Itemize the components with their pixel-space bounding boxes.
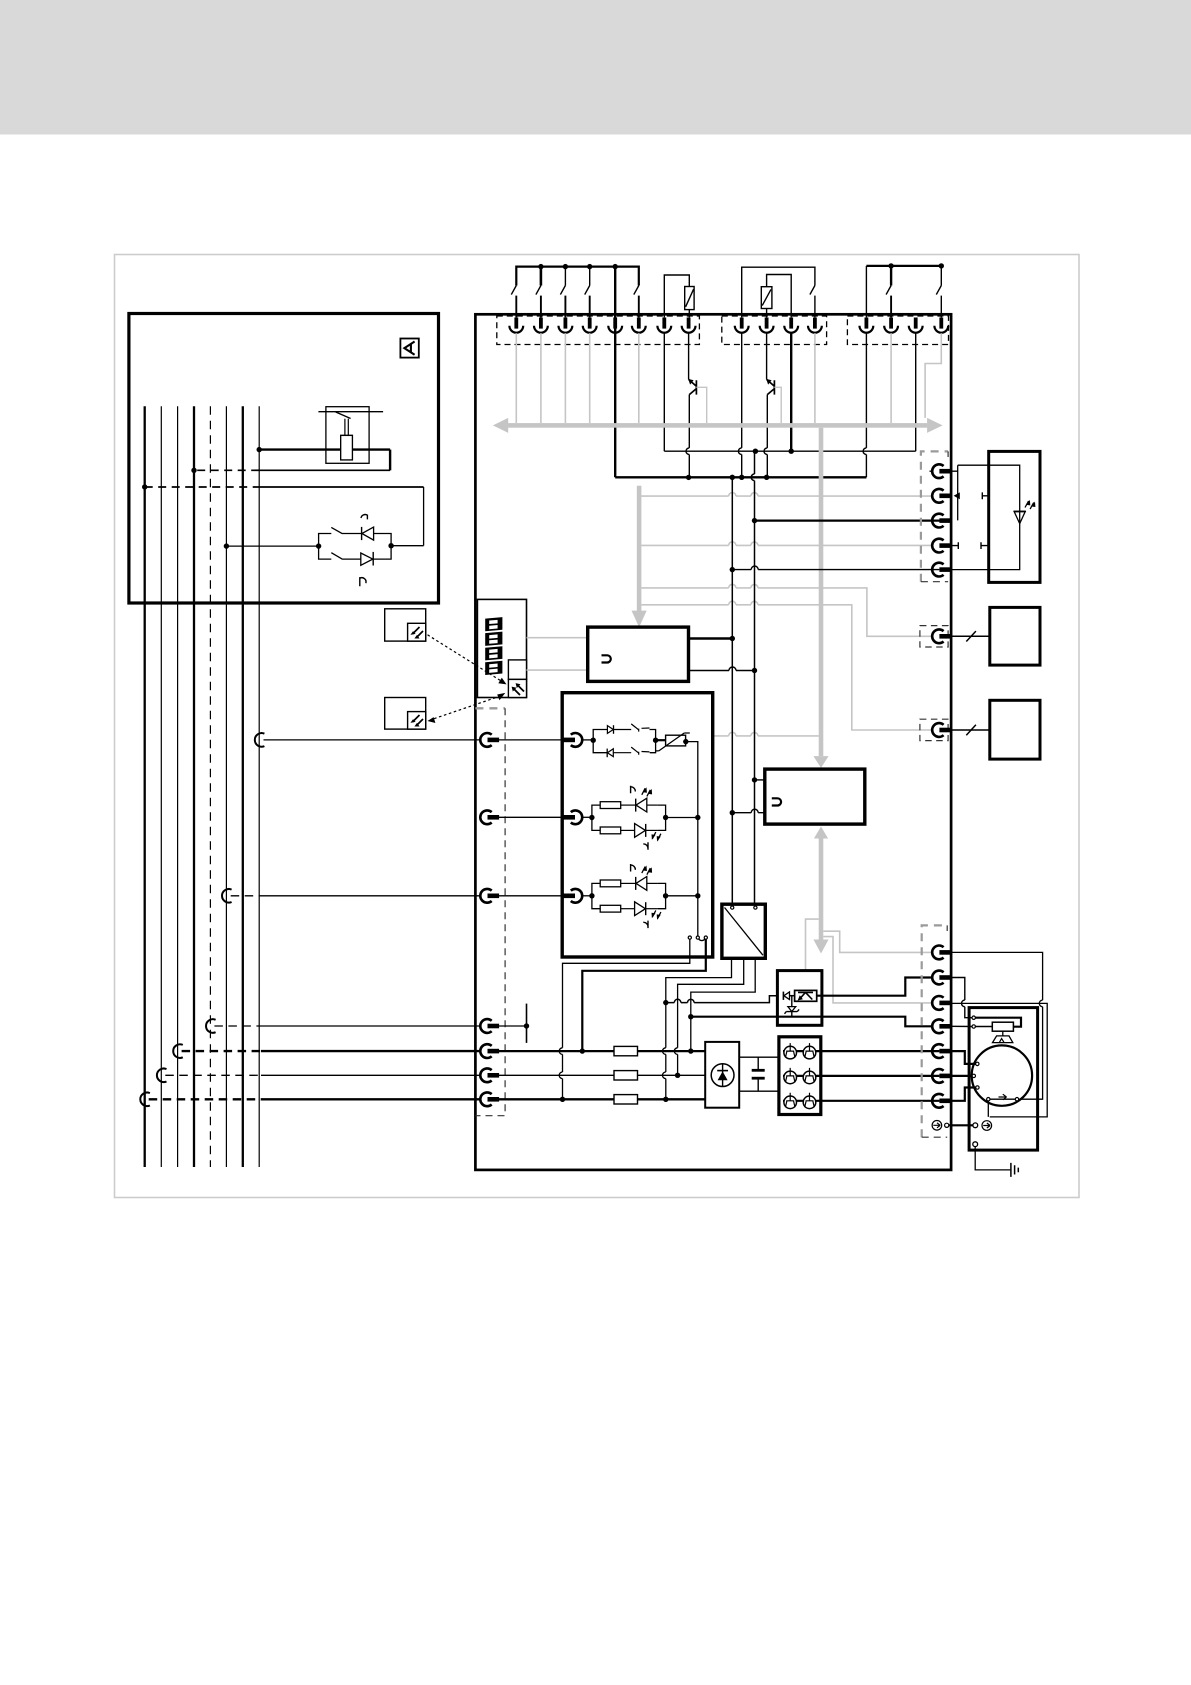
- wire node to PTC: [656, 739, 666, 741]
- connector X20.1 (left edge): [480, 1019, 499, 1033]
- wire gray control drop x815: [814, 333, 816, 423]
- gray signal arrow horizontal (double headed): [508, 423, 928, 428]
- terminal X1.7: [657, 318, 671, 333]
- wire X10.1 to LED board: [499, 739, 564, 741]
- stub pair y546: [951, 542, 990, 549]
- wire H1 collector rail: [664, 450, 915, 452]
- wire t7 up-over loop: [664, 275, 689, 317]
- wire X9.5 to motor U: [951, 1051, 976, 1064]
- wire diag pin1 route: [666, 958, 732, 1002]
- gray branch LED board to U2 arrow: [714, 735, 819, 737]
- terminal X1.1: [509, 318, 523, 333]
- LED V11a (left): [635, 799, 637, 812]
- connector LED board pin2: [563, 810, 582, 824]
- wire pin3 to node: [583, 895, 592, 897]
- terminal X1.5: [608, 318, 622, 333]
- contactor K1 top line: [318, 411, 383, 413]
- transistor IGBT22: [803, 1068, 816, 1084]
- terminal X1.2: [534, 318, 548, 333]
- terminal X3.4: [934, 318, 948, 333]
- wire supply line6: [225, 406, 227, 1167]
- display digit 8: [485, 661, 502, 675]
- wire g2t1 drop with hop: [741, 333, 743, 448]
- wire L1 feed to drive: [140, 1093, 150, 1107]
- brake shoe: [1002, 1031, 1004, 1036]
- switch blade g3 t2: [890, 266, 892, 286]
- resistor R11b: [600, 827, 621, 834]
- terminal X2.4: [808, 318, 822, 333]
- rectifier box: [705, 1042, 739, 1108]
- resistor R11a: [600, 802, 621, 809]
- contactor K1 actuator link: [344, 419, 346, 436]
- wire gray control drop x590: [589, 333, 591, 423]
- connector LED board pin1: [563, 733, 582, 747]
- wire X10.2 to LED board: [499, 816, 564, 818]
- gray branch to relay box B3 connector: [641, 605, 932, 730]
- label A: [400, 339, 418, 358]
- terminal X3.1: [860, 318, 874, 333]
- glyph D below: [643, 842, 648, 850]
- terminal X1.8: [682, 318, 696, 333]
- glyph D above: [631, 864, 636, 872]
- switch blade g3 t4: [940, 266, 942, 286]
- contactor K1 coil: [341, 435, 353, 460]
- header band: [0, 0, 1191, 135]
- wire L1 to interference-suppression loop: [145, 486, 260, 488]
- display digit 8: [485, 632, 502, 646]
- gray branch to right connector 4: [641, 544, 932, 546]
- terminal X3.2: [884, 318, 898, 333]
- switch blade S x639: [634, 286, 639, 295]
- connector X9.6: [932, 1069, 951, 1083]
- wire g3 t1 stub: [865, 266, 867, 318]
- wire IGBT row W: [783, 1100, 939, 1102]
- glyph D above: [631, 786, 636, 794]
- opto phototriac box: [795, 990, 817, 1001]
- gray branch arrow2 to connector 3: [823, 937, 932, 1003]
- opto zener: [791, 996, 793, 1007]
- transistor IGBT31: [784, 1093, 797, 1109]
- wire supply line8: [258, 406, 260, 1167]
- wire jumper1 down-left: [563, 939, 690, 1099]
- stub at B1 edge y496: [982, 492, 988, 499]
- terminal X3.3: [909, 318, 923, 333]
- transistor IGBT11: [784, 1043, 797, 1059]
- flash arrows a: [642, 788, 651, 796]
- wire X9.2 to brake +: [951, 978, 972, 1018]
- wire pin2 to node: [583, 816, 592, 818]
- wire diag pin3 route: [691, 958, 755, 1051]
- transistor Q2: [767, 379, 775, 394]
- connector X6.1: [932, 464, 951, 478]
- wire IGBT row U: [783, 1050, 939, 1052]
- PE plug arrow left: [932, 1121, 942, 1131]
- resistor R12a: [600, 880, 621, 887]
- display P1 box: [477, 599, 526, 697]
- wire brake + over coil: [975, 1018, 1021, 1027]
- shield bar: [526, 1004, 528, 1043]
- gray arrow to U2: [819, 428, 824, 756]
- varistor R1: [685, 287, 694, 310]
- wire X9.1 to thermal contact: [951, 952, 1043, 1099]
- wire supply L1: [144, 406, 146, 1167]
- switch blade S x565: [560, 286, 565, 295]
- terminal X2.2: [760, 318, 774, 333]
- varistor R2: [761, 287, 772, 309]
- connector X10.3: [480, 889, 499, 903]
- terminal X2.1: [735, 318, 749, 333]
- PE bottom terminal: [973, 1142, 978, 1147]
- wire group2 outer loop t1-t4: [742, 267, 815, 317]
- wire group2 inner loop t3-t2: [767, 275, 792, 318]
- wire DC-: [739, 1090, 779, 1092]
- wire X6.1 riser to X6.3: [951, 465, 1020, 570]
- switch S-bottom: [331, 553, 342, 560]
- wire gray Q1 gate: [696, 387, 706, 423]
- LED inside B1: [1014, 510, 1026, 512]
- wire supply L3: [177, 406, 179, 1167]
- brake terminal circles: [972, 1016, 975, 1019]
- switch S11 bottom: [613, 752, 631, 754]
- wire opto return (bold): [691, 1017, 933, 1027]
- wire PTC to rail: [686, 742, 698, 937]
- main inverter box: [475, 314, 951, 1170]
- wire X8 to B3 with slash: [951, 729, 990, 731]
- wire pin1 to node: [583, 739, 594, 741]
- wire stub t2 bold: [540, 267, 543, 286]
- switch blade S x541: [536, 286, 541, 295]
- glyph D-top: [361, 515, 367, 520]
- glyph D below: [643, 921, 648, 929]
- wire gray Q2 gate: [774, 387, 781, 423]
- relay box B2: [990, 607, 1040, 665]
- resistor R12b: [600, 905, 621, 912]
- connector X9.7: [932, 1094, 951, 1108]
- wire jumper3 down-left bold: [582, 939, 706, 1051]
- LED group 12 rails: [592, 883, 600, 908]
- wire supply N: [193, 406, 195, 1167]
- LED V12b (right): [635, 902, 646, 916]
- wire bus B to right connector3 bold: [755, 519, 951, 521]
- wire g2t2 drop (upper): [766, 333, 768, 379]
- LED board box: [562, 693, 713, 957]
- wire DC+: [739, 1056, 779, 1058]
- connector X8 dashed box: [920, 719, 948, 740]
- wire X20.1 to shield bar: [499, 1025, 527, 1027]
- wire supply L2: [160, 406, 162, 1167]
- connector X10.2: [480, 810, 499, 824]
- motor connector group dashed box: [922, 925, 948, 1137]
- display sub-box flash icon: [508, 679, 526, 697]
- opto LED diode: [782, 992, 784, 1000]
- rectifier diode symbol: [711, 1064, 734, 1087]
- connector X20.4: [480, 1092, 499, 1106]
- wire relay bus group3: [866, 265, 941, 267]
- connector X20.3: [480, 1068, 499, 1082]
- IGBT module box: [779, 1037, 821, 1115]
- wire g3t1 drop with hop to H2: [865, 333, 867, 448]
- connector X9.1: [932, 946, 951, 960]
- connector LED board pin3: [563, 889, 582, 903]
- wire bus A to right connector5 (hop over B): [732, 569, 939, 571]
- antiparallel thyristor pair rails: [319, 534, 332, 560]
- diode V-top (pointing left): [361, 527, 363, 540]
- flash arrows b: [652, 910, 661, 918]
- terminal X2.3: [784, 318, 798, 333]
- brake coil: [992, 1022, 1013, 1031]
- terminal X1.4: [583, 318, 597, 333]
- diode V11 (bottom, left): [606, 749, 608, 758]
- display digit 8: [485, 617, 502, 631]
- LED V11b (right): [635, 824, 646, 838]
- wire switch stub x590: [589, 267, 591, 286]
- wire X9.6 to motor V: [951, 1075, 973, 1077]
- diode V10 (top, right): [607, 726, 613, 734]
- wire node to optocoupler (hops): [666, 996, 778, 1003]
- wire node to rail: [666, 817, 698, 819]
- wire line6 to drive terminal (middle): [222, 889, 232, 903]
- wire switch stub x565: [564, 267, 566, 286]
- wire gray control drop g3t2: [890, 333, 892, 423]
- wire L2 feed to drive: [157, 1069, 167, 1083]
- optocoupler box: [777, 971, 822, 1026]
- wire phase R (bold): [499, 1050, 615, 1052]
- wire U1 out bottom to bus B (hop over A): [689, 670, 755, 672]
- gray branch arrow2 to optocoupler: [806, 919, 819, 990]
- connector X9.2: [932, 971, 951, 985]
- contactor K1 box: [326, 407, 369, 464]
- wire control bus group1: [516, 267, 639, 286]
- box A (mains supply box): [129, 314, 439, 604]
- capacitor C1: [757, 1057, 759, 1070]
- wire contactor return to N: [259, 469, 390, 471]
- wire gray control drop x541: [540, 333, 542, 423]
- wire line5 to control terminal: [206, 1019, 216, 1033]
- switch blade S x590: [585, 286, 590, 295]
- wire brake - to coil: [975, 1026, 992, 1028]
- gray branch to right connector 2: [641, 495, 932, 497]
- display sub-box key: [508, 660, 526, 680]
- terminal group 3 dashed box: [847, 316, 948, 345]
- transistor IGBT21: [784, 1068, 797, 1084]
- wire gray control drop g3t4 jog: [925, 333, 941, 418]
- wire t8 drop (lower) with hop over H1: [688, 395, 690, 448]
- PE plug arrow right: [982, 1121, 992, 1131]
- wire IGBT row V: [783, 1075, 939, 1077]
- wire X9.3 to thermal contact return: [951, 1003, 1047, 1117]
- gray display to U1 lines: [527, 637, 588, 639]
- flash arrows a: [642, 867, 651, 875]
- wire PE to earth: [975, 1147, 1010, 1170]
- wire X9.4 to brake -: [951, 1025, 972, 1027]
- wire line8 to drive terminal (top): [255, 733, 265, 747]
- left connector dashed box: [475, 707, 505, 709]
- gray branch to relay box B2 connector: [641, 588, 932, 636]
- wire phase T (bold): [499, 1098, 615, 1100]
- relay box B3: [990, 700, 1040, 759]
- wire switch stub x541: [540, 267, 542, 286]
- wire L3 feed to drive: [173, 1044, 183, 1058]
- dotted link display to option2: [433, 696, 501, 719]
- LED V12a (left): [635, 877, 637, 890]
- dotted link option1 to display: [428, 635, 502, 681]
- connector X7: [932, 629, 951, 643]
- switch S10 top: [631, 724, 649, 732]
- jumper pins J1: [688, 936, 691, 939]
- transistor Q1: [689, 379, 697, 394]
- connector X9.5: [932, 1044, 951, 1058]
- node dots box A: [257, 447, 262, 452]
- DC/brake module box (diagonal): [722, 904, 765, 958]
- motor terminals: [976, 1062, 979, 1065]
- contactor K1 coil (over wire): [341, 435, 353, 460]
- connector X20.2: [480, 1044, 499, 1058]
- option flash box 2: [385, 698, 426, 730]
- wire supply line7: [242, 406, 244, 1167]
- wire g2t2 drop (lower) with hop: [766, 395, 768, 448]
- transistor IGBT32: [803, 1093, 816, 1109]
- switch blade group2 t4: [810, 286, 815, 295]
- fuse F2: [614, 1071, 638, 1080]
- display digit 8: [485, 646, 502, 660]
- connector X7 dashed box: [920, 626, 948, 647]
- connector X6.4: [932, 539, 951, 553]
- wire supply PE (dashed): [209, 406, 211, 1167]
- wire gray control drop x565: [564, 333, 566, 423]
- wire H2 emitter rail bold: [615, 476, 866, 478]
- wire vertical bus B (x=754.5) with hop at H2: [754, 451, 756, 474]
- wire t7 drop to H1: [663, 333, 665, 451]
- connector X10.1: [480, 733, 499, 747]
- wire gray control drop x639: [638, 333, 640, 423]
- arrow into X6.2: [954, 492, 960, 499]
- connector X9.3: [932, 996, 951, 1010]
- connector X6.2: [932, 489, 951, 503]
- transistor IGBT12: [803, 1043, 816, 1059]
- connector X6.5: [932, 563, 951, 577]
- figure frame: [115, 255, 1080, 1198]
- wire vertical bus A (x=732.3): [731, 477, 733, 904]
- thermal contact chord: [987, 1098, 990, 1101]
- right connector group dashed box: [921, 451, 948, 581]
- wire line8 to contactor loop: [259, 448, 390, 450]
- gray arrow to U1 (shaft with branches): [637, 486, 642, 612]
- terminal X1.3: [559, 318, 573, 333]
- option flash box 1: [385, 609, 426, 641]
- terminal group 2 dashed box: [722, 316, 827, 345]
- ground symbol: [1011, 1163, 1018, 1177]
- diode V-bottom (pointing right): [361, 553, 373, 565]
- wire line6 to antiparallel pair: [226, 545, 318, 547]
- LED group 11 rails: [592, 805, 600, 830]
- wire g2t3 drop bold to H1: [790, 333, 792, 451]
- wire t8 drop (upper): [688, 333, 690, 379]
- control unit U1: [588, 627, 689, 681]
- wire opto out to connector B4.2: [817, 978, 933, 996]
- PTC fuse F10: [666, 735, 686, 746]
- wire gray control drop x516: [515, 333, 517, 423]
- connector X6.3: [932, 514, 951, 528]
- wire X9.7 to motor W: [951, 1088, 976, 1101]
- terminal group 1 dashed box: [497, 316, 700, 345]
- wire X10.3 to LED board: [499, 895, 564, 897]
- glyph D-bottom: [360, 577, 366, 586]
- wire X7 to B2 with slash: [951, 635, 990, 637]
- wire U1 out top to bus A: [689, 637, 733, 639]
- motor M circle: [972, 1045, 1032, 1105]
- wire phase S: [499, 1074, 615, 1076]
- terminal X1.6: [632, 318, 646, 333]
- flash arrows b: [652, 832, 661, 840]
- wire diag pin2 route: [678, 958, 744, 1075]
- branch rails group A: [593, 730, 607, 753]
- fuse F3: [614, 1095, 638, 1104]
- gray branch arrow2 to connector 1: [823, 931, 932, 952]
- switch S-top: [331, 527, 342, 533]
- fuse F1: [614, 1046, 638, 1055]
- switch blade S x516: [511, 286, 516, 295]
- wire node to rail: [666, 895, 698, 897]
- connector X9.4: [932, 1019, 951, 1033]
- wire bus B to U2: [755, 779, 765, 781]
- motor box: [969, 1008, 1038, 1151]
- wire t5 straight bold feed: [614, 267, 616, 478]
- control unit U2: [765, 769, 865, 824]
- wire bus A to U2 (hop over B): [732, 812, 765, 814]
- connector X8: [932, 723, 951, 737]
- contactor K1 switch blade: [336, 412, 351, 419]
- wire g3t3 drop to H1: [915, 333, 917, 451]
- gray arrow U2 to power section (double): [814, 827, 828, 839]
- brake relay box B1: [989, 451, 1040, 582]
- wire PE link: [949, 1124, 973, 1126]
